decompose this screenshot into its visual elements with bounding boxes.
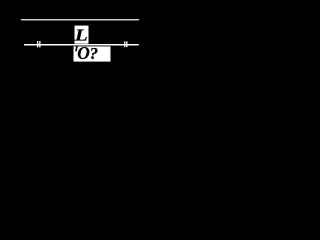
wire: lower horizontal line: [24, 44, 139, 46]
wire: top horizontal line: [21, 19, 139, 20]
svg-text:O: O: [77, 43, 90, 63]
label box O?: [74, 46, 111, 61]
label box L: [75, 26, 89, 44]
node A: left double-tick mark: [37, 41, 41, 47]
svg-text:?: ?: [90, 44, 99, 63]
svg-text:L: L: [74, 26, 88, 45]
accent tick of O: [75, 46, 78, 51]
node B: right double-tick mark: [124, 41, 127, 47]
